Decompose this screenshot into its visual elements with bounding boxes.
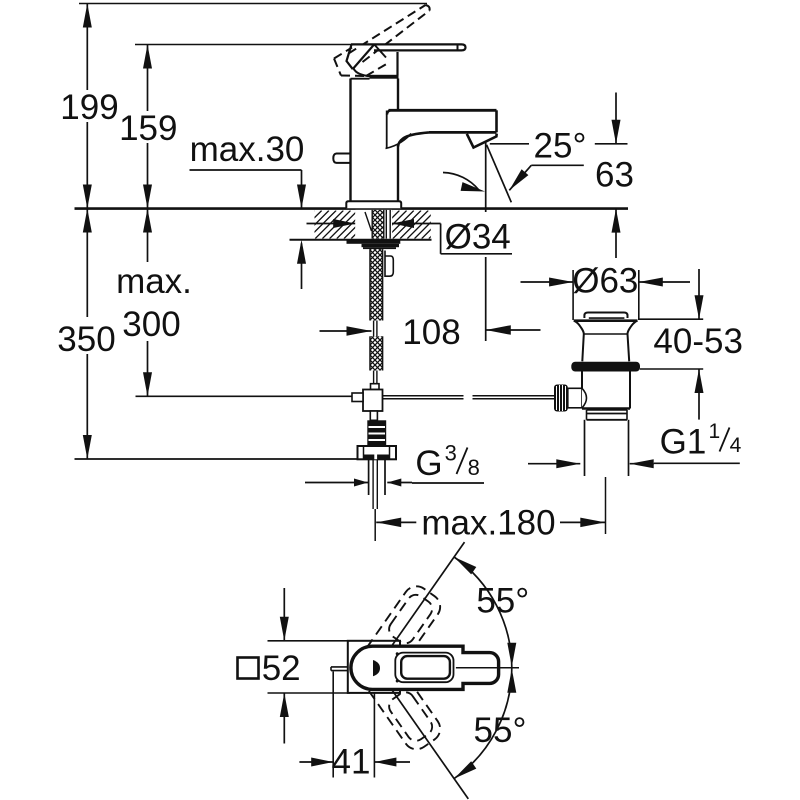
svg-text:25°: 25° (534, 127, 587, 166)
svg-text:4: 4 (730, 434, 742, 457)
svg-text:52: 52 (262, 649, 301, 688)
svg-text:55°: 55° (474, 711, 527, 750)
svg-text:350: 350 (57, 320, 115, 359)
svg-text:3: 3 (445, 441, 457, 466)
svg-text:max.180: max.180 (421, 504, 555, 543)
svg-text:41: 41 (332, 743, 371, 782)
svg-text:108: 108 (402, 313, 460, 352)
svg-text:300: 300 (122, 305, 180, 344)
svg-text:max.30: max.30 (190, 130, 305, 169)
svg-text:159: 159 (119, 109, 177, 148)
svg-text:1: 1 (709, 420, 721, 443)
svg-text:max.: max. (116, 262, 192, 301)
svg-text:199: 199 (60, 88, 118, 127)
svg-text:55°: 55° (476, 581, 529, 620)
svg-text:8: 8 (468, 455, 480, 480)
svg-text:G: G (415, 444, 442, 483)
svg-text:63: 63 (595, 156, 634, 195)
svg-text:Ø34: Ø34 (445, 218, 511, 257)
svg-text:G1: G1 (660, 422, 707, 461)
svg-text:40-53: 40-53 (653, 322, 743, 361)
svg-text:Ø63: Ø63 (572, 262, 638, 301)
